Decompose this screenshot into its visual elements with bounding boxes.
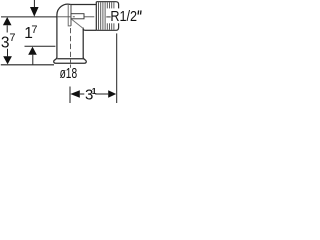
leader dash to R1/2 (106, 16, 110, 18)
dim 1-7 bottom arrow (up, outside) (28, 47, 37, 55)
tube right edge (82, 28, 84, 58)
inner corner arc (83, 29, 85, 31)
dim 3-7 stem lower (7, 49, 9, 57)
press flag rectangle (71, 14, 84, 19)
dim 3-7 stem upper (6, 25, 8, 32)
bottom dim right arrow (108, 90, 116, 97)
thread block outline (96, 2, 118, 31)
elbow outer left edge / tube left edge (56, 15, 58, 58)
svg-text:3: 3 (1, 34, 10, 51)
inch double-prime marks (138, 10, 141, 14)
socket bell top rim line (57, 58, 83, 60)
dimension line A (top extension) (1, 16, 57, 18)
vertical centerline (70, 28, 72, 63)
svg-text:1: 1 (92, 86, 97, 96)
inserted pipe end line 1 (68, 5, 71, 26)
socket bell outline (54, 57, 87, 63)
background (0, 0, 144, 103)
dim 1-7 top stem (33, 0, 35, 7)
bottom dim left extension line (69, 87, 71, 104)
svg-text:R1/2: R1/2 (110, 8, 137, 25)
svg-text:ø18: ø18 (60, 65, 78, 82)
dimension line C (bottom extension) (1, 64, 54, 66)
thread block left edge (95, 2, 97, 31)
dim 1-7 bottom stem (32, 55, 34, 65)
thread hatch lines (99, 2, 114, 30)
horizontal centerline (57, 16, 71, 18)
inserted pipe end line 2 (70, 5, 72, 26)
svg-text:7: 7 (31, 24, 37, 36)
bottom dim right extension line (116, 33, 118, 103)
svg-text:7: 7 (9, 32, 15, 44)
pipe bottom edge (85, 29, 96, 31)
dim 1-7 top arrow (down, outside) (30, 7, 39, 17)
centerline tick below socket (70, 65, 72, 68)
bottom dim line left segment (80, 93, 84, 95)
elbow outer corner arc (57, 4, 71, 15)
white box behind R1/2 text (106, 8, 144, 23)
dim 3-7 bottom arrow (down) (3, 56, 12, 64)
elbow outer top edge (71, 4, 97, 6)
chamfer diagonal (72, 19, 84, 28)
bottom dim line right segment (95, 93, 108, 95)
bottom dim left arrow (70, 90, 80, 98)
dimension line B (mid extension) (25, 45, 56, 47)
dim 3-7 top arrow (up) (3, 17, 12, 25)
